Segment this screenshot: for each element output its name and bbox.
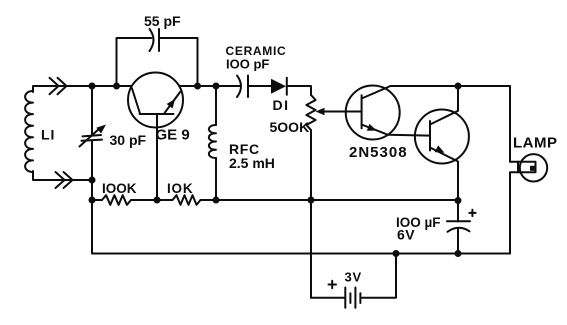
GE9 emitter arrow [167, 99, 175, 109]
battery plate short2 [359, 293, 361, 303]
junction dot 1 [89, 83, 96, 90]
svg-text:LAMP: LAMP [513, 135, 558, 152]
rail1 mid segment [131, 199, 173, 201]
wire GE9 right to ceramic cap [179, 85, 239, 87]
svg-text:2.5 mH: 2.5 mH [229, 155, 275, 171]
wire bottom of L1 [33, 171, 92, 180]
lamp feed stub top [510, 161, 518, 163]
30pF arrow [80, 128, 101, 147]
Q2 emitter lead [362, 125, 430, 136]
transistor Q2 2N5308 circle [346, 86, 400, 140]
Q2 collector lead [362, 86, 391, 99]
Q3 collector lead [430, 86, 458, 125]
capacitor 100uF top lead [457, 201, 459, 222]
junction dot 12 [393, 250, 400, 257]
junction dot 2 [113, 83, 120, 90]
battery plus sign [329, 281, 337, 288]
svg-text:30 pF: 30 pF [110, 132, 147, 148]
junction dot 5 [455, 83, 462, 90]
battery right lead [362, 254, 396, 298]
30pF bottom lead [91, 141, 93, 200]
svg-text:IOO pF: IOO pF [226, 57, 269, 72]
capacitor ceramic 100pF curved plate [237, 76, 241, 98]
100uF bottom lead [457, 229, 459, 254]
Q3 base bar [429, 121, 431, 151]
resistor 10K [173, 195, 201, 205]
svg-text:LI: LI [41, 127, 55, 143]
rail1 left segment [92, 199, 102, 201]
coupling arrows top [50, 78, 67, 94]
pot bottom lead down to battery [310, 130, 312, 298]
capacitor C 30pF variable : top lead [91, 86, 93, 135]
100uF top plate [447, 220, 470, 222]
junction dot 8 [154, 197, 161, 204]
RFC bottom lead [215, 158, 217, 200]
30pF plates [82, 135, 103, 141]
lamp contact fill [530, 166, 536, 171]
capacitor ceramic 100pF straight plate [247, 76, 249, 98]
Q3 emitter lead [430, 148, 458, 201]
GE9 left lead [132, 89, 140, 114]
resistor 100K [102, 195, 131, 205]
junction dot 6 [89, 177, 96, 184]
svg-text:2N5308: 2N5308 [349, 144, 408, 161]
Q3 emitter arrow [435, 145, 445, 152]
100uF plus sign [469, 210, 475, 216]
svg-text:DI: DI [273, 97, 290, 113]
pot wiper arrow [316, 108, 325, 115]
battery plate long1 [344, 288, 346, 308]
junction dot 4 [213, 83, 220, 90]
junction dot 9 [213, 197, 220, 204]
svg-text:GE 9: GE 9 [156, 127, 190, 144]
svg-text:IOK: IOK [167, 181, 193, 196]
top rail to lamp [391, 86, 511, 162]
coupling arrows bottom [56, 172, 73, 188]
battery plate short1 [349, 293, 351, 303]
capacitor 55pF bracket right [159, 38, 198, 86]
junction dot 10 [308, 197, 315, 204]
junction dot 11 [455, 197, 462, 204]
Q2 base bar [361, 95, 363, 128]
capacitor C 55pF straight plate [158, 29, 160, 51]
junction dot 3 [194, 83, 201, 90]
junction dot 13 [455, 250, 462, 257]
inductor L1 [25, 91, 33, 172]
GE9 right lead [165, 92, 181, 114]
transistor Q1 GE9 circle [128, 73, 183, 128]
svg-text:5OOK: 5OOK [270, 119, 310, 135]
100uF bottom curved plate [448, 228, 470, 232]
battery plate long2 [354, 288, 356, 308]
junction dot 7 [89, 197, 96, 204]
diode D1 cathode bar [286, 78, 288, 95]
GE9 base lead down [156, 114, 158, 200]
inductor RFC [209, 125, 216, 158]
inductor RFC top lead [215, 86, 217, 125]
potentiometer 500K zigzag [306, 95, 315, 130]
svg-text:IOOK: IOOK [102, 181, 137, 196]
battery 3V left lead [311, 297, 344, 299]
wire diode to pot [287, 86, 311, 95]
wire cap to diode [248, 85, 272, 87]
rail2 bottom [92, 141, 510, 254]
lamp return stub [510, 172, 518, 253]
lamp base rect [518, 162, 536, 172]
GE9 base bar [140, 113, 174, 115]
diode D1 triangle [271, 79, 286, 94]
Q2 emitter arrow [367, 124, 377, 131]
wire top-left (L1 top to GE9) [33, 86, 132, 92]
svg-text:3V: 3V [345, 270, 363, 285]
capacitor C 55pF curved plate [150, 29, 154, 51]
wire wiper to Q2 base [325, 111, 362, 113]
svg-text:55 pF: 55 pF [144, 13, 181, 29]
rail1 right segment [201, 199, 459, 201]
lamp bulb circle [520, 154, 547, 181]
svg-text:6V: 6V [397, 227, 415, 243]
capacitor 55pF bracket left [117, 38, 152, 86]
transistor Q3 circle [415, 110, 469, 164]
